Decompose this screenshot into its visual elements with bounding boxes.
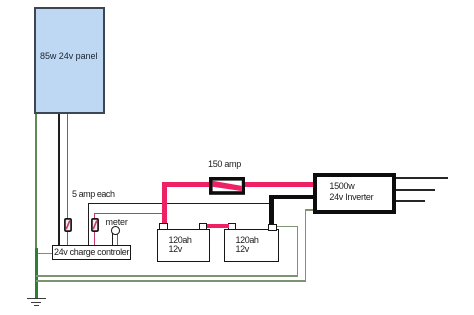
label: 1500w 24v Inverter bbox=[329, 181, 373, 203]
label: 5 amp each bbox=[72, 189, 115, 199]
wire: pink below fuse F1 to controller bbox=[67, 230, 68, 245]
inverter U2 box bbox=[313, 173, 396, 214]
wire: thick black inverter negative horizontal bbox=[269, 195, 313, 199]
terminal B1 positive bbox=[159, 223, 168, 229]
wire: green bottom horizontal (inner, battery negative to ground) bbox=[36, 275, 298, 277]
wire: thin black controller-to-battery horizontal is above; thick pink battery1 positive riser bbox=[162, 182, 167, 223]
wire: AC output line 1 bbox=[396, 177, 448, 179]
wire: green outer vertical below inverter bbox=[305, 209, 307, 281]
label: 150 amp bbox=[208, 159, 241, 169]
label: battery B2 120ah 12v bbox=[236, 236, 259, 255]
wire: black from controller up then right to battery negative bbox=[88, 203, 89, 246]
wire: thick pink horizontal to inverter bbox=[162, 182, 313, 186]
label: 85w 24v panel bbox=[40, 51, 97, 61]
wire: panel negative black vertical bbox=[58, 114, 59, 245]
wire: pink series jumper between batteries bbox=[207, 224, 229, 228]
ground symbol GND1 bbox=[27, 298, 46, 300]
wire: AC output line 2 bbox=[396, 189, 435, 191]
wire: green inner vertical at battery right bbox=[297, 226, 299, 277]
terminal B2 negative bbox=[268, 224, 278, 231]
terminal B2 positive bbox=[228, 223, 236, 229]
wire: panel positive pink vertical (upper) bbox=[67, 114, 68, 219]
fuse F2 5A (symbol) bbox=[91, 218, 99, 232]
label: meter bbox=[106, 217, 128, 227]
meter M1 (circle) bbox=[111, 226, 120, 235]
battery B2 box bbox=[224, 229, 280, 261]
label: 24v charge controler bbox=[54, 247, 129, 257]
fuse F1 5A (symbol) bbox=[64, 218, 72, 232]
wire: green bottom horizontal (outer, inverter ground) bbox=[36, 280, 306, 282]
solar panel PV1 85w 24v bbox=[34, 7, 105, 114]
fuse F3 150 amp bbox=[209, 177, 245, 195]
meter M1 leads bbox=[112, 233, 113, 245]
wire: thick black vertical down to battery2 negative bbox=[269, 195, 274, 225]
wire: green to controller left bbox=[37, 253, 53, 255]
wire: panel ground green vertical (thin) bbox=[35, 114, 37, 249]
wire: pink from controller through fuse F2 up then right to battery positive bbox=[94, 213, 95, 246]
battery B1 box bbox=[157, 229, 211, 261]
charge controller U1 box bbox=[52, 245, 131, 260]
terminal B1 negative bbox=[199, 223, 207, 229]
wire: green from battery2 negative terminal bbox=[277, 226, 298, 228]
wire: green stub to inverter bottom corner bbox=[305, 209, 314, 211]
wire: thick green ground vertical bbox=[35, 248, 39, 298]
label: battery B1 120ah 12v bbox=[169, 236, 192, 255]
wire: AC output line 3 bbox=[396, 200, 426, 202]
